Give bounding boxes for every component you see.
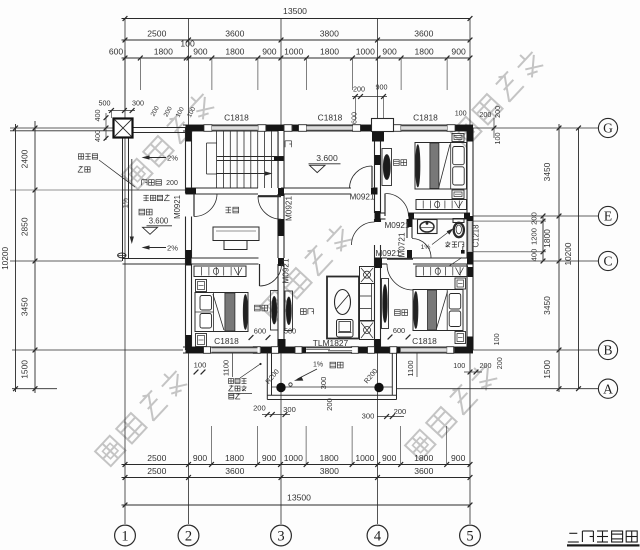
terrace wall left bbox=[122, 133, 124, 262]
living coffee table bbox=[335, 290, 351, 315]
living armchair bbox=[337, 320, 354, 338]
svg-text:M0721: M0721 bbox=[397, 232, 406, 257]
svg-text:1800: 1800 bbox=[154, 47, 173, 57]
svg-text:1800: 1800 bbox=[225, 453, 244, 463]
right dim outer bbox=[578, 128, 580, 389]
svg-text:1200: 1200 bbox=[530, 228, 539, 245]
svg-text:200: 200 bbox=[495, 357, 504, 369]
door M0921 bedroom SW bbox=[259, 264, 261, 286]
bedroom SE wardrobe bbox=[416, 266, 468, 277]
axis line G bbox=[10, 127, 113, 129]
svg-text:100: 100 bbox=[492, 333, 501, 345]
terrace wall top bbox=[132, 127, 186, 129]
window C1818 top-right bbox=[401, 125, 447, 131]
title erceng pingmiantu bbox=[569, 532, 577, 534]
dim row axis spans top bbox=[122, 39, 471, 41]
svg-text:M0921: M0921 bbox=[173, 195, 182, 219]
svg-text:3: 3 bbox=[277, 529, 284, 545]
axis bubble E bbox=[598, 206, 617, 225]
svg-text:1800: 1800 bbox=[542, 229, 552, 248]
svg-text:300: 300 bbox=[319, 377, 328, 390]
svg-text:3.600: 3.600 bbox=[149, 217, 169, 226]
bath sink bbox=[418, 220, 438, 234]
terrace mid line bbox=[123, 189, 186, 191]
living rug bbox=[327, 277, 359, 339]
svg-text:900: 900 bbox=[262, 47, 277, 57]
terrace slope 1% arrow bbox=[131, 159, 133, 240]
svg-text:E: E bbox=[604, 209, 612, 224]
svg-text:200: 200 bbox=[480, 361, 492, 370]
right dim window C1218 offsets bbox=[542, 216, 544, 261]
svg-text:3600: 3600 bbox=[414, 466, 433, 476]
svg-text:900: 900 bbox=[451, 453, 466, 463]
svg-text:2500: 2500 bbox=[147, 453, 166, 463]
left dim inner bbox=[34, 121, 36, 393]
svg-text:900: 900 bbox=[376, 83, 388, 92]
svg-text:900: 900 bbox=[193, 47, 208, 57]
svg-text:3450: 3450 bbox=[542, 296, 552, 315]
interior wall corridor mid bbox=[281, 188, 351, 194]
watermark 3 bbox=[258, 221, 354, 321]
svg-text:1100: 1100 bbox=[222, 360, 231, 376]
svg-text:10200: 10200 bbox=[0, 246, 10, 269]
svg-text:2500: 2500 bbox=[147, 466, 166, 476]
interior wall E west stub bbox=[375, 213, 386, 219]
study desk bbox=[213, 227, 259, 241]
svg-text:100: 100 bbox=[493, 133, 502, 145]
exterior wall top bbox=[183, 125, 473, 131]
svg-text:C1818: C1818 bbox=[413, 113, 438, 123]
axis line A bbox=[12, 388, 57, 390]
left dim outer bbox=[15, 124, 17, 392]
svg-text:400: 400 bbox=[530, 249, 539, 262]
svg-text:900: 900 bbox=[193, 453, 208, 463]
axis line 5 bbox=[469, 19, 471, 126]
bedroom SE bed bbox=[413, 290, 463, 331]
door M0921 bedroom NE bbox=[384, 194, 386, 217]
interior wall study east bbox=[278, 194, 284, 258]
svg-text:G: G bbox=[603, 121, 613, 136]
axis line 1 bbox=[124, 19, 126, 525]
svg-text:C: C bbox=[603, 254, 612, 269]
bedroom NE bed bbox=[415, 143, 467, 190]
column dims 500-300 bbox=[108, 110, 135, 112]
svg-text:1000: 1000 bbox=[284, 47, 303, 57]
window C1818 bottom-left bbox=[212, 347, 258, 353]
axis bubble 2 bbox=[178, 525, 199, 546]
dim row detail bottom bbox=[122, 464, 471, 466]
window C1818 top-middle bbox=[307, 125, 353, 131]
svg-text:200: 200 bbox=[493, 106, 502, 118]
label fenshuixian bbox=[78, 154, 83, 159]
axis bubble 1 bbox=[115, 525, 136, 546]
bedroom SW wardrobe bbox=[194, 266, 246, 277]
door M0921 study north bbox=[258, 195, 281, 197]
door TLM1827 balcony bbox=[306, 347, 352, 353]
svg-text:900: 900 bbox=[382, 453, 397, 463]
svg-text:100: 100 bbox=[194, 361, 207, 370]
window C1818 top-left bbox=[212, 125, 258, 131]
svg-text:3600: 3600 bbox=[225, 29, 244, 39]
svg-text:3800: 3800 bbox=[320, 29, 339, 39]
door M0921 corridor bbox=[352, 222, 375, 245]
right dim inner bbox=[558, 124, 560, 392]
svg-text:600: 600 bbox=[393, 326, 405, 335]
svg-text:500: 500 bbox=[99, 99, 111, 108]
svg-text:200: 200 bbox=[353, 85, 365, 94]
svg-text:200: 200 bbox=[166, 180, 178, 187]
svg-text:B: B bbox=[603, 343, 612, 358]
svg-text:C1218: C1218 bbox=[471, 225, 480, 248]
label concrete bbox=[143, 194, 148, 196]
window C1818 bottom-right bbox=[401, 347, 447, 353]
exterior wall left upper bbox=[186, 128, 192, 194]
interior wall E east bbox=[409, 213, 471, 219]
svg-text:300: 300 bbox=[362, 412, 375, 421]
svg-text:10200: 10200 bbox=[563, 242, 573, 265]
axis line B bbox=[12, 349, 185, 351]
svg-text:C1818: C1818 bbox=[214, 336, 239, 346]
svg-text:2%: 2% bbox=[167, 154, 178, 163]
bedroom NE wardrobe cabinet bbox=[382, 149, 392, 186]
stairs bbox=[216, 132, 218, 189]
interior wall C east-2 bbox=[413, 258, 470, 264]
axis bubble G bbox=[598, 118, 617, 137]
svg-text:900: 900 bbox=[262, 453, 277, 463]
window C1218 right wall bbox=[467, 221, 473, 252]
interior wall corridor west bbox=[186, 188, 259, 194]
interior wall 4 lower bbox=[375, 245, 381, 347]
axis line 2 bbox=[188, 19, 190, 126]
svg-text:400: 400 bbox=[93, 110, 102, 122]
label terrace bbox=[139, 209, 145, 215]
bedroom SW wall cabinet bbox=[271, 291, 279, 331]
living sofa bbox=[360, 267, 375, 284]
svg-text:C1818: C1818 bbox=[224, 113, 249, 123]
window end blocks bbox=[204, 125, 212, 132]
svg-text:M0921: M0921 bbox=[282, 258, 291, 283]
axis line 4 bbox=[377, 19, 379, 119]
svg-text:1000: 1000 bbox=[355, 453, 374, 463]
watermark 2 bbox=[449, 47, 545, 147]
svg-text:900: 900 bbox=[382, 47, 397, 57]
svg-text:200: 200 bbox=[530, 212, 539, 225]
svg-text:200: 200 bbox=[253, 403, 266, 412]
dim row axis spans bottom bbox=[122, 477, 471, 479]
axis bubble C bbox=[598, 251, 617, 270]
bedroom SW nightstand north bbox=[196, 280, 207, 292]
balcony walls bbox=[266, 353, 268, 400]
svg-text:3800: 3800 bbox=[320, 466, 339, 476]
label study bbox=[226, 206, 232, 208]
svg-text:600: 600 bbox=[254, 326, 266, 335]
interior wall bedroom/living bbox=[278, 264, 284, 347]
svg-text:200: 200 bbox=[325, 398, 334, 411]
svg-text:100: 100 bbox=[453, 361, 465, 370]
bedroom SE nightstand north bbox=[455, 278, 466, 289]
door M0921 hall bbox=[371, 166, 373, 188]
svg-text:3450: 3450 bbox=[542, 162, 552, 181]
svg-text:100: 100 bbox=[455, 108, 467, 117]
svg-text:1%: 1% bbox=[123, 198, 130, 208]
stair label down bbox=[284, 141, 286, 147]
watermark 4 bbox=[93, 366, 189, 466]
axis bubble A bbox=[598, 379, 617, 398]
door M0921 bedroom SE bbox=[387, 258, 413, 260]
svg-text:400: 400 bbox=[93, 130, 102, 142]
svg-text:2%: 2% bbox=[167, 244, 178, 253]
svg-text:600: 600 bbox=[109, 47, 124, 57]
svg-text:2: 2 bbox=[185, 529, 192, 545]
label bedroom SW bbox=[255, 305, 261, 311]
svg-text:3.600: 3.600 bbox=[316, 153, 338, 163]
axis line E bbox=[473, 215, 599, 217]
exterior wall left lower bbox=[186, 217, 192, 351]
top extension stubs bbox=[139, 58, 141, 90]
svg-text:4: 4 bbox=[374, 529, 382, 545]
bedroom NE nightstand south bbox=[452, 190, 464, 199]
label bathroom bbox=[445, 242, 450, 244]
interior wall 4 upper bbox=[375, 131, 381, 213]
svg-text:1500: 1500 bbox=[542, 360, 552, 379]
watermark 1 bbox=[120, 89, 216, 189]
svg-text:13500: 13500 bbox=[283, 6, 307, 16]
svg-text:M0921: M0921 bbox=[349, 192, 374, 201]
dims above wall4 bbox=[352, 96, 387, 98]
bedroom SW bed bbox=[195, 293, 248, 332]
svg-text:A: A bbox=[603, 381, 613, 396]
axis bubble B bbox=[598, 340, 617, 359]
dim row 13500 top bbox=[122, 18, 471, 20]
svg-text:C1818: C1818 bbox=[318, 113, 343, 123]
svg-text:1800: 1800 bbox=[320, 47, 339, 57]
bedroom SE nightstand south bbox=[455, 332, 466, 344]
svg-text:2850: 2850 bbox=[20, 217, 30, 236]
svg-text:TLM1827: TLM1827 bbox=[313, 338, 349, 348]
svg-text:200: 200 bbox=[394, 407, 407, 416]
svg-text:1800: 1800 bbox=[414, 453, 433, 463]
column at 1-G bbox=[114, 119, 133, 138]
terrace drain bbox=[118, 253, 126, 258]
svg-text:1%: 1% bbox=[421, 244, 431, 251]
label living room bbox=[301, 309, 307, 315]
balcony drain right bbox=[374, 383, 383, 392]
svg-text:3600: 3600 bbox=[414, 29, 433, 39]
svg-text:200: 200 bbox=[479, 110, 491, 119]
wall black fill segments bbox=[186, 125, 205, 131]
svg-text:3600: 3600 bbox=[225, 466, 244, 476]
bedroom NE wardrobe bbox=[416, 200, 467, 210]
label threshold 200 bbox=[141, 180, 143, 186]
axis bubble 5 bbox=[460, 525, 481, 546]
dim row detail top bbox=[122, 57, 471, 59]
svg-text:300: 300 bbox=[283, 405, 296, 414]
column dims 400-400 bbox=[105, 113, 107, 140]
bedroom SW nightstand south bbox=[196, 334, 207, 347]
bedroom NE nightstand north bbox=[452, 134, 464, 142]
interior wall stair east bbox=[278, 131, 284, 188]
svg-text:1000: 1000 bbox=[356, 47, 375, 57]
label kongtiaoban block bbox=[229, 379, 234, 384]
interior wall corridor east bbox=[373, 188, 378, 194]
balcony drain left bbox=[276, 383, 285, 392]
label bedroom NE bbox=[394, 160, 400, 166]
svg-text:1800: 1800 bbox=[415, 47, 434, 57]
svg-text:1100: 1100 bbox=[406, 360, 415, 376]
svg-text:C1818: C1818 bbox=[412, 336, 437, 346]
svg-text:1500: 1500 bbox=[20, 360, 30, 379]
door M0721 bathroom bbox=[412, 239, 431, 258]
axis line 3 bbox=[280, 19, 282, 126]
label bedroom SE bbox=[395, 310, 401, 316]
svg-text:900: 900 bbox=[451, 47, 466, 57]
watermark 5 bbox=[403, 360, 499, 460]
svg-text:1000: 1000 bbox=[284, 453, 303, 463]
living TV cabinet bbox=[285, 291, 293, 331]
axis bubble 4 bbox=[367, 525, 388, 546]
bedroom SE cabinet bbox=[382, 279, 389, 329]
svg-text:M0921: M0921 bbox=[285, 196, 294, 221]
exterior wall bottom bbox=[183, 347, 473, 353]
svg-text:1800: 1800 bbox=[225, 47, 244, 57]
svg-text:300: 300 bbox=[132, 99, 144, 108]
interior wall C east-1 bbox=[375, 258, 388, 264]
svg-text:580: 580 bbox=[284, 327, 296, 336]
door M0921 terrace-study bbox=[193, 194, 195, 217]
svg-text:1800: 1800 bbox=[320, 453, 339, 463]
bathroom west wall bbox=[407, 219, 412, 238]
interior wall C west bbox=[186, 258, 259, 264]
dim row 13500 bottom bbox=[122, 504, 471, 506]
bath floor drain bbox=[461, 250, 465, 254]
svg-text:2500: 2500 bbox=[147, 29, 166, 39]
axis bubble 3 bbox=[271, 525, 292, 546]
svg-text:M0921: M0921 bbox=[384, 221, 409, 230]
svg-text:3450: 3450 bbox=[20, 297, 30, 316]
svg-text:2400: 2400 bbox=[20, 149, 30, 168]
flue box bbox=[372, 119, 394, 132]
svg-text:13500: 13500 bbox=[287, 493, 311, 503]
bottom extension stubs bbox=[211, 426, 213, 465]
svg-text:1: 1 bbox=[121, 529, 128, 545]
axis line C bbox=[10, 260, 122, 262]
exterior wall right bbox=[467, 128, 473, 350]
bath toilet bbox=[453, 219, 464, 223]
svg-text:5: 5 bbox=[466, 529, 473, 545]
interior wall 4 mid bbox=[375, 219, 381, 222]
svg-text:600: 600 bbox=[350, 112, 359, 124]
terrace wall bottom bbox=[123, 258, 186, 260]
svg-text:1%: 1% bbox=[313, 362, 323, 369]
